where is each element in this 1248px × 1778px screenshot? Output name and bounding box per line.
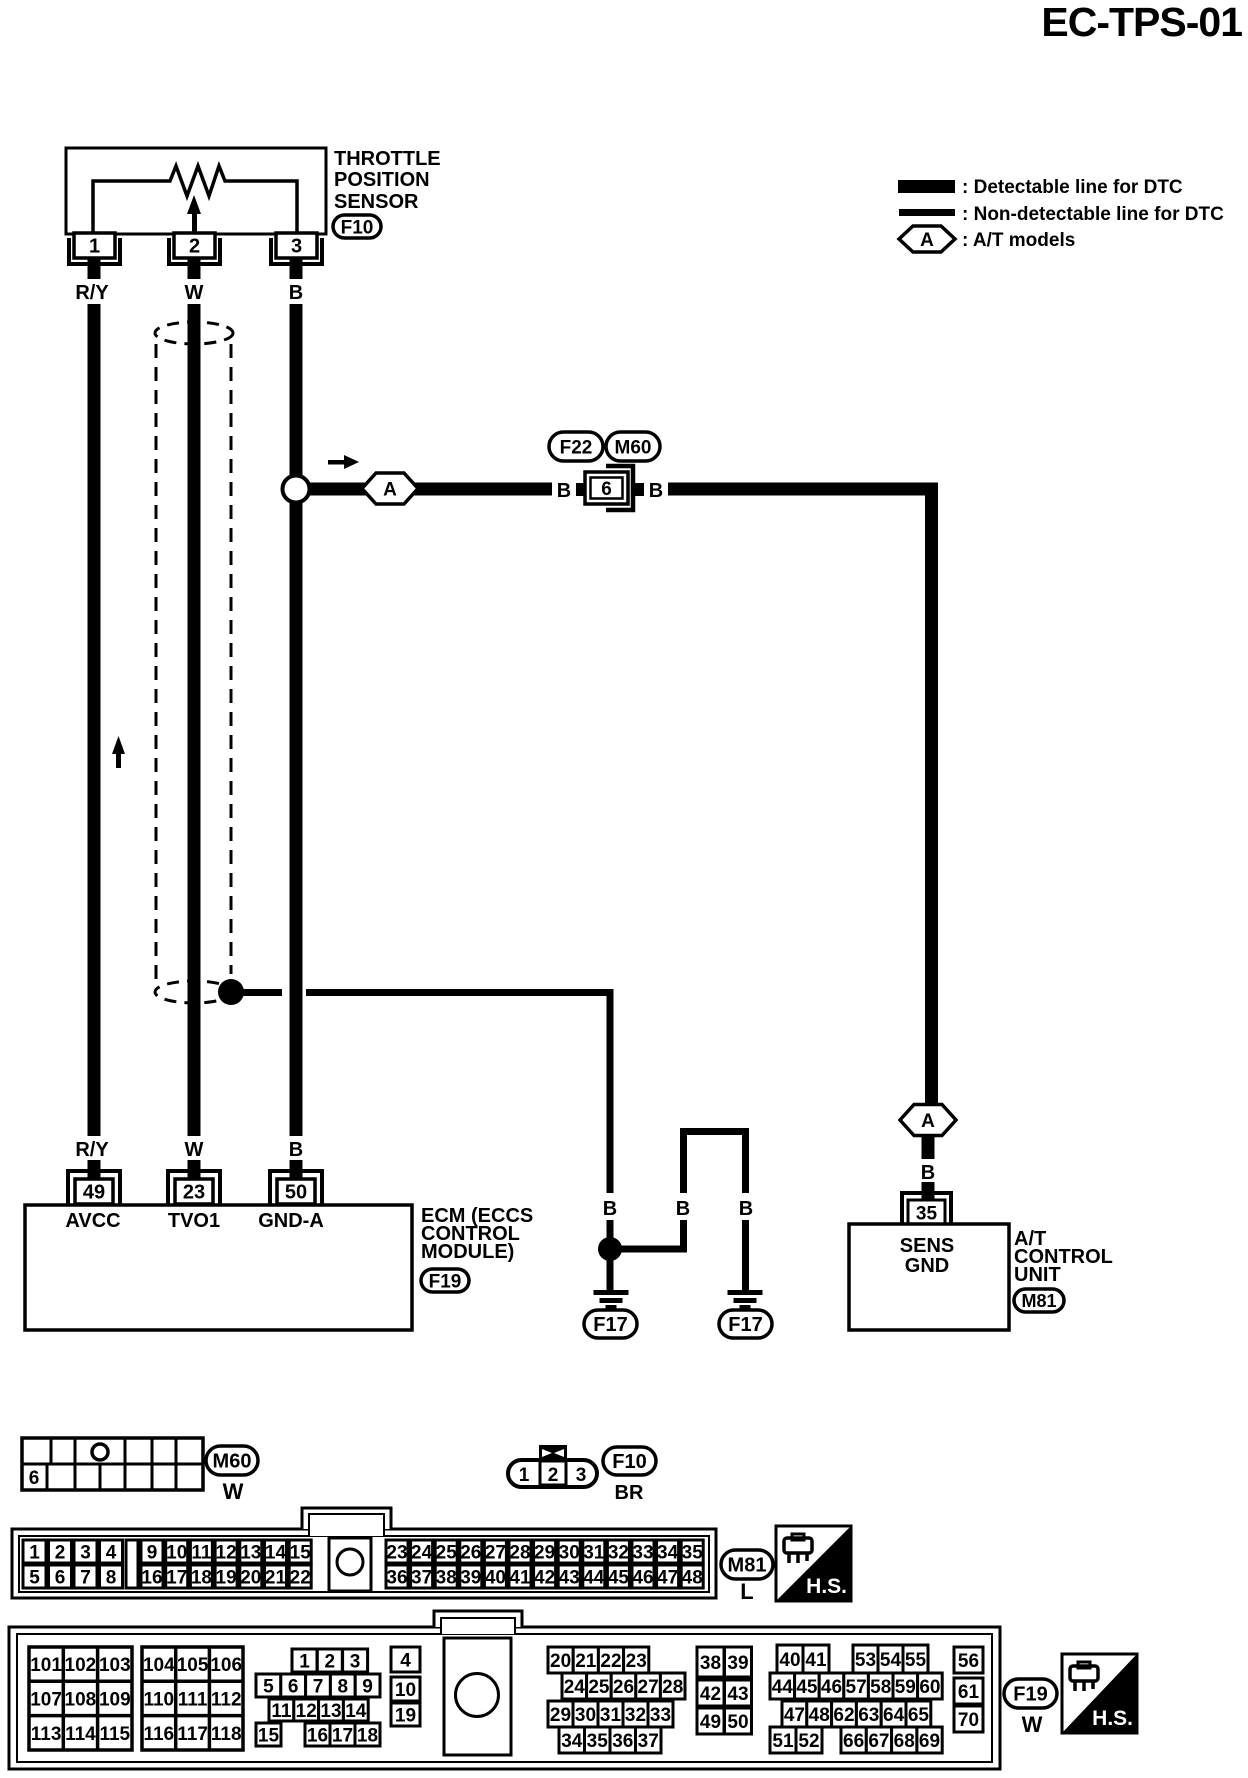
- svg-text:6: 6: [288, 1676, 299, 1697]
- svg-text:40: 40: [485, 1567, 506, 1588]
- svg-text:54: 54: [880, 1650, 902, 1671]
- ECM box: [25, 1205, 412, 1330]
- svg-text:50: 50: [285, 1182, 307, 1204]
- svg-text:22: 22: [290, 1567, 311, 1588]
- svg-text:48: 48: [809, 1705, 830, 1726]
- svg-text:39: 39: [460, 1567, 481, 1588]
- M81 pin 27: [484, 1540, 506, 1563]
- svg-text:F10: F10: [612, 1451, 646, 1473]
- svg-text:25: 25: [588, 1677, 610, 1698]
- svg-text:109: 109: [99, 1689, 131, 1710]
- F19 pins 16-18: [305, 1723, 380, 1746]
- svg-text:TVO1: TVO1: [168, 1210, 220, 1232]
- svg-text:BR: BR: [615, 1482, 644, 1504]
- ECM pin 49: [68, 1160, 120, 1205]
- svg-text:4: 4: [400, 1650, 411, 1671]
- svg-text:66: 66: [843, 1731, 864, 1752]
- svg-text:21: 21: [265, 1567, 287, 1588]
- F19 pins 29-33: [548, 1701, 673, 1727]
- M81 pin 15: [289, 1540, 311, 1563]
- svg-text:GND-A: GND-A: [258, 1210, 324, 1232]
- connector view M81: [12, 1508, 716, 1598]
- svg-text:7: 7: [313, 1676, 324, 1697]
- svg-text:46: 46: [632, 1567, 653, 1588]
- svg-text:B: B: [649, 480, 663, 502]
- M81 pin 32: [607, 1540, 629, 1563]
- svg-text:: Detectable line for DTC: : Detectable line for DTC: [962, 177, 1183, 198]
- svg-text:116: 116: [143, 1724, 174, 1745]
- sensor pin 2: [169, 233, 220, 279]
- svg-text:20: 20: [240, 1567, 261, 1588]
- svg-text:62: 62: [833, 1705, 854, 1726]
- svg-text:23: 23: [386, 1542, 407, 1563]
- svg-text:UNIT: UNIT: [1014, 1264, 1061, 1286]
- svg-text:32: 32: [608, 1542, 629, 1563]
- svg-text:30: 30: [575, 1705, 596, 1726]
- M81 pin 18: [190, 1565, 212, 1588]
- svg-text:1: 1: [89, 236, 100, 258]
- svg-text:45: 45: [796, 1677, 818, 1698]
- ground symbol 2: [728, 1290, 763, 1310]
- M81 pin 13: [240, 1540, 262, 1563]
- M81 pin 8: [100, 1565, 123, 1588]
- connector M81 oval: [1014, 1289, 1064, 1312]
- connector view M60: [22, 1438, 203, 1490]
- M81 pin 48: [681, 1565, 703, 1588]
- ECM label: [421, 1205, 533, 1263]
- shield junction dot: [218, 979, 244, 1005]
- svg-text:23: 23: [626, 1651, 647, 1672]
- M81 pin 1: [23, 1540, 46, 1563]
- svg-text:52: 52: [798, 1731, 819, 1752]
- svg-text:42: 42: [700, 1684, 721, 1705]
- M81 pin 12: [215, 1540, 237, 1563]
- svg-text:B: B: [921, 1162, 935, 1184]
- connector F10 oval (view): [603, 1447, 656, 1475]
- svg-text:36: 36: [612, 1731, 633, 1752]
- F19 pin 10: [391, 1677, 420, 1701]
- svg-text:19: 19: [395, 1705, 416, 1726]
- svg-text:19: 19: [216, 1567, 237, 1588]
- M81 pin 30: [558, 1540, 580, 1563]
- svg-text:W: W: [1022, 1712, 1043, 1737]
- shield dashed bottom ellipse: [155, 981, 233, 1003]
- F19 pins 34-37: [559, 1727, 661, 1753]
- svg-text:B: B: [289, 1139, 303, 1161]
- svg-text:R/Y: R/Y: [75, 282, 109, 304]
- svg-text:12: 12: [216, 1542, 237, 1563]
- node circle on wire 3: [283, 476, 310, 503]
- svg-text:25: 25: [436, 1542, 458, 1563]
- connector M60 oval (view): [206, 1446, 258, 1475]
- svg-text:2: 2: [55, 1542, 66, 1563]
- M81 pin 43: [558, 1565, 580, 1588]
- svg-text:GND: GND: [905, 1255, 949, 1277]
- svg-text:POSITION: POSITION: [334, 169, 430, 191]
- svg-text:34: 34: [657, 1542, 679, 1563]
- svg-text:44: 44: [772, 1677, 794, 1698]
- svg-text:42: 42: [534, 1567, 555, 1588]
- M81 pin 4: [100, 1540, 123, 1563]
- shield ground wire horizontal: [231, 989, 282, 996]
- legend detectable line: [898, 177, 1183, 198]
- M81 pin 35: [681, 1540, 703, 1563]
- F19 pin 56: [954, 1647, 983, 1673]
- M81 pin 28: [509, 1540, 531, 1563]
- M81 pin 20: [240, 1565, 262, 1588]
- svg-text:31: 31: [583, 1542, 605, 1563]
- M81 pin 7: [74, 1565, 97, 1588]
- svg-text:3: 3: [291, 236, 302, 258]
- M81 pin 37: [411, 1565, 433, 1588]
- svg-text:53: 53: [855, 1650, 876, 1671]
- connector view F10: [508, 1445, 597, 1487]
- svg-text:32: 32: [625, 1705, 646, 1726]
- M81 pin 47: [657, 1565, 679, 1588]
- svg-text:8: 8: [106, 1567, 117, 1588]
- svg-text:27: 27: [638, 1677, 659, 1698]
- svg-text:16: 16: [307, 1725, 328, 1746]
- branch wire to connector 6: [309, 483, 552, 496]
- F19 pins 101-115: [29, 1647, 132, 1750]
- svg-text:1: 1: [29, 1542, 40, 1563]
- svg-text:6: 6: [55, 1567, 66, 1588]
- svg-text:57: 57: [846, 1677, 867, 1698]
- svg-text:F10: F10: [341, 217, 374, 238]
- svg-text:40: 40: [779, 1650, 800, 1671]
- M81 pin 6: [49, 1565, 72, 1588]
- svg-text:10: 10: [166, 1542, 187, 1563]
- sensor pin 3: [271, 233, 322, 279]
- svg-text:111: 111: [178, 1689, 208, 1710]
- svg-text:43: 43: [559, 1567, 580, 1588]
- svg-text:110: 110: [143, 1689, 174, 1710]
- shield dashed left line: [155, 344, 158, 986]
- svg-text:: Non-detectable line for DTC: : Non-detectable line for DTC: [962, 204, 1224, 225]
- svg-text:2: 2: [548, 1465, 559, 1486]
- svg-text:R/Y: R/Y: [75, 1139, 109, 1161]
- wire below hexagon: [922, 1135, 935, 1159]
- svg-text:15: 15: [258, 1725, 280, 1746]
- svg-text:M81: M81: [1021, 1291, 1056, 1311]
- M81 pin 40: [484, 1565, 506, 1588]
- svg-text:35: 35: [682, 1542, 704, 1563]
- svg-text:W: W: [185, 1139, 204, 1161]
- A/T control unit label: [1014, 1228, 1113, 1286]
- svg-text:9: 9: [147, 1542, 158, 1563]
- svg-text:59: 59: [895, 1677, 916, 1698]
- svg-text:3: 3: [80, 1542, 91, 1563]
- svg-text:1: 1: [299, 1651, 310, 1672]
- M81 pin 42: [534, 1565, 556, 1588]
- shield ground wire vertical: [607, 989, 614, 1242]
- svg-text:24: 24: [411, 1542, 433, 1563]
- connector M60 oval: [606, 432, 660, 461]
- F19 pins 20-23: [548, 1647, 649, 1673]
- F19 pins 104-118: [142, 1647, 243, 1750]
- svg-text:34: 34: [561, 1731, 583, 1752]
- ECM pin 23: [168, 1160, 220, 1205]
- connector F17 oval 2: [719, 1310, 772, 1338]
- svg-text:26: 26: [613, 1677, 634, 1698]
- M81 pin 26: [460, 1540, 482, 1563]
- svg-text:69: 69: [919, 1731, 940, 1752]
- svg-text:3: 3: [350, 1651, 361, 1672]
- M81 pin 22: [289, 1565, 311, 1588]
- F19 pin 4: [391, 1647, 420, 1672]
- M81 pin 34: [657, 1540, 679, 1563]
- svg-text:11: 11: [271, 1701, 292, 1722]
- svg-text:35: 35: [916, 1203, 938, 1224]
- svg-text:18: 18: [357, 1725, 378, 1746]
- svg-text:14: 14: [265, 1542, 287, 1563]
- svg-text:21: 21: [575, 1651, 597, 1672]
- pin 35: [902, 1191, 951, 1225]
- svg-text:F17: F17: [593, 1314, 627, 1336]
- legend non-detectable line: [899, 204, 1224, 225]
- svg-text:20: 20: [550, 1651, 571, 1672]
- svg-text:70: 70: [958, 1710, 979, 1731]
- svg-text:103: 103: [99, 1655, 131, 1676]
- svg-text:MODULE): MODULE): [421, 1241, 514, 1263]
- svg-text:8: 8: [338, 1676, 349, 1697]
- M81 pin 21: [265, 1565, 287, 1588]
- F19 pins 49-50: [697, 1708, 752, 1734]
- svg-text:64: 64: [883, 1705, 905, 1726]
- svg-text:9: 9: [362, 1676, 373, 1697]
- svg-text:2: 2: [189, 236, 200, 258]
- svg-text:F22: F22: [560, 437, 593, 458]
- ground 1 stub: [607, 1258, 614, 1290]
- svg-text:M60: M60: [615, 437, 652, 458]
- n-shaped wire to ground 2: [616, 1128, 749, 1292]
- svg-text:6: 6: [601, 479, 612, 500]
- connector F22 oval: [549, 432, 603, 461]
- F19 pins 24-28: [562, 1673, 685, 1699]
- F19 pins 47-48,62-65: [782, 1701, 931, 1727]
- svg-text:17: 17: [166, 1567, 187, 1588]
- potentiometer resistor: [93, 166, 297, 234]
- M81 pin 23: [386, 1540, 408, 1563]
- svg-text:2: 2: [325, 1651, 336, 1672]
- svg-text:18: 18: [191, 1567, 212, 1588]
- svg-text:F19: F19: [1013, 1684, 1047, 1706]
- svg-text:7: 7: [80, 1567, 91, 1588]
- svg-text:W: W: [185, 282, 204, 304]
- connector F19 oval (view): [1004, 1679, 1057, 1708]
- svg-text:107: 107: [30, 1689, 62, 1710]
- svg-text:41: 41: [509, 1567, 531, 1588]
- hexagon A/T marker lower: [900, 1105, 956, 1136]
- svg-text:44: 44: [583, 1567, 605, 1588]
- svg-text:108: 108: [65, 1689, 97, 1710]
- svg-text:65: 65: [908, 1705, 930, 1726]
- M81 pin 3: [74, 1540, 97, 1563]
- svg-text:B: B: [557, 480, 571, 502]
- svg-text:38: 38: [436, 1567, 457, 1588]
- F19 pins 5-9: [256, 1674, 380, 1697]
- svg-text:17: 17: [332, 1725, 353, 1746]
- svg-text:49: 49: [83, 1182, 105, 1204]
- M81 pin 14: [265, 1540, 287, 1563]
- F19 pins 53-55: [853, 1645, 928, 1673]
- wire 3 B vertical: [290, 304, 303, 1136]
- M81 pin 39: [460, 1565, 482, 1588]
- inline connector 6: [576, 466, 644, 510]
- svg-text:22: 22: [600, 1651, 621, 1672]
- M81 pin 2: [49, 1540, 72, 1563]
- hexagon A/T marker on branch: [362, 473, 418, 504]
- shield dashed right line: [230, 344, 233, 974]
- F19 pins 40-41: [777, 1645, 829, 1673]
- M81 pin 10: [166, 1540, 188, 1563]
- svg-text:1: 1: [519, 1465, 530, 1486]
- svg-text:117: 117: [177, 1724, 208, 1745]
- M81 pin 11: [190, 1540, 212, 1563]
- up arrow beside wire 1: [112, 736, 125, 768]
- svg-text:112: 112: [211, 1689, 242, 1710]
- svg-text:48: 48: [682, 1567, 703, 1588]
- svg-text:30: 30: [559, 1542, 580, 1563]
- svg-text:16: 16: [141, 1567, 162, 1588]
- svg-text:THROTTLE: THROTTLE: [334, 148, 441, 170]
- svg-text:43: 43: [727, 1684, 748, 1705]
- F19 pins 38-39: [697, 1647, 752, 1677]
- A/T control unit box: [849, 1224, 1009, 1330]
- svg-text:55: 55: [905, 1650, 927, 1671]
- svg-text:A: A: [383, 480, 397, 501]
- svg-text:37: 37: [411, 1567, 432, 1588]
- svg-text:102: 102: [65, 1655, 97, 1676]
- svg-text:113: 113: [31, 1724, 62, 1745]
- svg-text:6: 6: [29, 1468, 40, 1489]
- svg-text:A: A: [920, 230, 934, 251]
- svg-text:12: 12: [296, 1701, 317, 1722]
- svg-text:114: 114: [65, 1724, 96, 1745]
- F19 pins 66-69: [841, 1727, 942, 1753]
- svg-text:SENS: SENS: [900, 1235, 954, 1257]
- F19 pin 15: [256, 1723, 281, 1746]
- M81 filler cell: [126, 1540, 138, 1588]
- svg-text:41: 41: [805, 1650, 827, 1671]
- svg-text:63: 63: [858, 1705, 879, 1726]
- M81 pin 46: [632, 1565, 654, 1588]
- svg-text:10: 10: [395, 1680, 416, 1701]
- svg-text:68: 68: [894, 1731, 915, 1752]
- svg-text:35: 35: [587, 1731, 609, 1752]
- svg-text:5: 5: [29, 1567, 40, 1588]
- branch arrow right: [328, 455, 359, 469]
- shield dashed top ellipse: [155, 322, 233, 344]
- M81 pin 44: [583, 1565, 605, 1588]
- svg-text:AVCC: AVCC: [65, 1210, 120, 1232]
- F19 pins 42-43: [697, 1680, 752, 1706]
- svg-text:105: 105: [177, 1655, 209, 1676]
- sensor pin 1: [69, 233, 120, 279]
- F19 pin 70: [954, 1706, 983, 1732]
- svg-text:F19: F19: [429, 1271, 462, 1292]
- svg-text:27: 27: [485, 1542, 506, 1563]
- svg-text:38: 38: [700, 1653, 721, 1674]
- M81 pin 41: [509, 1565, 531, 1588]
- svg-text:33: 33: [650, 1705, 671, 1726]
- M81 pin 25: [435, 1540, 457, 1563]
- svg-text:45: 45: [608, 1567, 630, 1588]
- M81 pin 33: [632, 1540, 654, 1563]
- svg-text:33: 33: [632, 1542, 653, 1563]
- M81 pin 36: [386, 1565, 408, 1588]
- svg-text:37: 37: [638, 1731, 659, 1752]
- svg-text:11: 11: [191, 1542, 212, 1563]
- svg-text:M60: M60: [213, 1451, 252, 1473]
- svg-text:28: 28: [509, 1542, 530, 1563]
- svg-text:M81: M81: [728, 1555, 767, 1577]
- connector M81 oval (view): [721, 1550, 773, 1579]
- M81 pin 5: [23, 1565, 46, 1588]
- F19 pins 44-46,57-60: [770, 1673, 942, 1699]
- wiper arrow: [187, 195, 201, 234]
- svg-text:118: 118: [211, 1724, 242, 1745]
- svg-text:39: 39: [727, 1653, 748, 1674]
- M81 pin 45: [607, 1565, 629, 1588]
- svg-text:B: B: [676, 1198, 690, 1220]
- svg-text:W: W: [223, 1479, 244, 1504]
- wire stub to pin 35: [922, 1182, 935, 1200]
- svg-text:104: 104: [143, 1655, 175, 1676]
- svg-text:B: B: [739, 1198, 753, 1220]
- svg-text:26: 26: [460, 1542, 481, 1563]
- svg-text:13: 13: [240, 1542, 261, 1563]
- SENS GND label: [900, 1235, 954, 1277]
- M81 pin 38: [435, 1565, 457, 1588]
- F19 pins 1-3: [292, 1649, 368, 1672]
- svg-text:14: 14: [345, 1701, 367, 1722]
- M81 pin 9: [141, 1540, 163, 1563]
- wire 2 W vertical: [188, 304, 201, 1136]
- connector F17 oval 1: [584, 1310, 637, 1338]
- svg-text:56: 56: [958, 1651, 979, 1672]
- ECM pin 50: [270, 1160, 322, 1205]
- svg-text:50: 50: [727, 1712, 748, 1733]
- svg-text:H.S.: H.S.: [1092, 1707, 1133, 1730]
- F19 pin 19: [391, 1703, 420, 1726]
- svg-text:58: 58: [870, 1677, 891, 1698]
- throttle position sensor box: [66, 148, 326, 234]
- M81 pin 24: [411, 1540, 433, 1563]
- svg-text:47: 47: [657, 1567, 678, 1588]
- svg-text:36: 36: [386, 1567, 407, 1588]
- svg-text:L: L: [740, 1579, 753, 1604]
- M81 pin 31: [583, 1540, 605, 1563]
- M81 pin 19: [215, 1565, 237, 1588]
- H.S. logo (F19): [1062, 1654, 1137, 1733]
- svg-text:67: 67: [868, 1731, 889, 1752]
- svg-text:31: 31: [600, 1705, 622, 1726]
- sensor label: [334, 148, 441, 213]
- svg-text:4: 4: [106, 1542, 117, 1563]
- svg-text:23: 23: [183, 1182, 205, 1204]
- F19 pins 51-52: [770, 1727, 822, 1753]
- F19 pin 61: [954, 1678, 983, 1704]
- svg-text:B: B: [289, 282, 303, 304]
- svg-text:A: A: [921, 1111, 935, 1132]
- svg-text:5: 5: [263, 1676, 274, 1697]
- svg-text:101: 101: [30, 1655, 62, 1676]
- connector view F19 outline: [9, 1611, 1000, 1769]
- svg-text:49: 49: [700, 1712, 721, 1733]
- svg-text:51: 51: [772, 1731, 794, 1752]
- M81 pin 16: [141, 1565, 163, 1588]
